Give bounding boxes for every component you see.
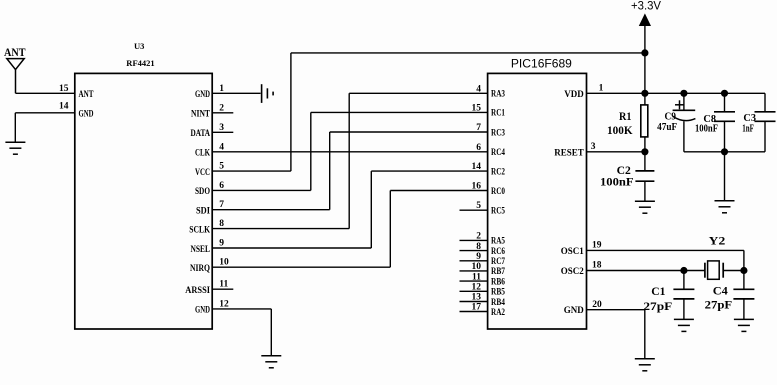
node dot VCC tee <box>642 50 648 56</box>
svg-text:10: 10 <box>219 258 229 268</box>
svg-text:2: 2 <box>219 103 224 113</box>
svg-text:14: 14 <box>472 162 482 172</box>
svg-text:RC6: RC6 <box>491 246 505 256</box>
ground C1 <box>674 318 694 320</box>
svg-text:Y2: Y2 <box>709 234 726 248</box>
svg-text:PIC16F689: PIC16F689 <box>511 57 572 71</box>
ground C2 <box>635 200 655 202</box>
svg-text:3: 3 <box>219 123 224 133</box>
svg-text:VDD: VDD <box>564 89 584 99</box>
svg-text:SDI: SDI <box>196 206 210 216</box>
stub PIC pin 10 <box>460 270 488 272</box>
svg-text:7: 7 <box>219 200 224 210</box>
svg-text:14: 14 <box>59 102 69 112</box>
svg-text:RB4: RB4 <box>491 297 505 307</box>
svg-text:C4: C4 <box>713 283 728 297</box>
stub PIC pin 13 <box>460 301 488 303</box>
ground U3 pin12 <box>261 355 281 357</box>
svg-text:RC3: RC3 <box>491 127 505 137</box>
capacitor C2 <box>644 152 646 171</box>
wire PIC GND pin20 <box>587 309 645 311</box>
capacitor C1 <box>683 271 685 290</box>
wire VDD rail <box>587 92 766 94</box>
node dot cap rail <box>721 149 727 155</box>
wire RESET <box>587 151 645 153</box>
wire VCC up to +3.3V rail <box>212 170 291 172</box>
antenna symbol <box>7 59 24 70</box>
svg-text:RA2: RA2 <box>491 307 505 317</box>
stub PIC pin 9 <box>460 260 488 262</box>
svg-text:7: 7 <box>476 123 481 133</box>
svg-text:RA3: RA3 <box>491 89 505 99</box>
node dot RESET <box>642 149 648 155</box>
wire SCLK to RA3 <box>212 228 349 230</box>
wire antenna to U3 pin15 <box>16 92 75 94</box>
node dot C9 top <box>681 90 687 96</box>
wire SDO to RC1 <box>212 189 311 191</box>
resistor R1 <box>644 93 646 105</box>
svg-text:RC1: RC1 <box>491 108 505 118</box>
ground antenna <box>5 141 25 143</box>
stub PIC pin 11 <box>460 280 488 282</box>
stub U3 pin11 ARSSI <box>212 288 233 290</box>
capacitor C3 <box>764 93 766 112</box>
svg-text:OSC1: OSC1 <box>561 246 585 256</box>
svg-text:GND: GND <box>195 89 210 99</box>
wire NSEL to RC2 <box>212 247 371 249</box>
svg-text:CLK: CLK <box>195 148 210 158</box>
capacitor C4 <box>743 271 745 290</box>
svg-text:GND: GND <box>564 305 585 315</box>
capacitor C8 <box>724 93 726 112</box>
stub U3 pin2 NINT <box>212 112 233 114</box>
svg-text:NSEL: NSEL <box>191 244 211 254</box>
svg-text:12: 12 <box>219 299 229 309</box>
capacitor C9 (electrolytic) <box>683 93 685 110</box>
C9 plus sign <box>675 104 684 106</box>
stub PIC pin 12 <box>460 290 488 292</box>
svg-text:1: 1 <box>219 84 224 94</box>
ground PIC pin20 <box>635 358 655 360</box>
svg-text:VCC: VCC <box>195 167 210 177</box>
node dot OSC2/C1 <box>681 267 687 273</box>
wire U3 pin14 GND <box>15 112 75 114</box>
svg-text:27pF: 27pF <box>705 297 733 311</box>
svg-text:OSC2: OSC2 <box>561 266 585 276</box>
wire SDI to RC3 <box>212 209 330 211</box>
stub PIC pin 17 <box>460 311 488 313</box>
svg-text:+3.3V: +3.3V <box>631 0 661 13</box>
svg-text:100nF: 100nF <box>695 122 718 134</box>
svg-text:SCLK: SCLK <box>189 224 210 234</box>
svg-text:18: 18 <box>592 261 602 271</box>
svg-text:15: 15 <box>59 84 69 94</box>
svg-text:SDO: SDO <box>195 186 210 196</box>
wire U3 pin12 GND <box>212 308 271 310</box>
svg-text:ARSSI: ARSSI <box>185 285 210 295</box>
svg-text:RESET: RESET <box>554 147 584 157</box>
svg-text:GND: GND <box>195 305 210 315</box>
svg-text:RC7: RC7 <box>491 256 505 266</box>
svg-text:RC2: RC2 <box>491 166 505 176</box>
svg-text:RA5: RA5 <box>491 236 505 246</box>
svg-text:4: 4 <box>219 142 224 152</box>
+3.3V arrow <box>640 15 651 26</box>
svg-text:R1: R1 <box>619 109 632 123</box>
svg-text:RF4421: RF4421 <box>126 58 154 68</box>
stub PIC RC5 <box>460 209 488 211</box>
ground C4 <box>734 318 754 320</box>
svg-text:15: 15 <box>472 103 482 113</box>
svg-text:3: 3 <box>591 142 596 152</box>
svg-text:RC5: RC5 <box>491 206 505 216</box>
crystal Y2 <box>704 263 706 278</box>
svg-text:1: 1 <box>599 84 604 94</box>
svg-text:RC4: RC4 <box>491 147 505 157</box>
svg-text:100K: 100K <box>607 123 633 137</box>
svg-text:U3: U3 <box>134 41 144 51</box>
svg-text:RB7: RB7 <box>491 266 505 276</box>
svg-text:6: 6 <box>219 181 224 191</box>
wire OSC2 <box>587 270 705 272</box>
svg-text:RC0: RC0 <box>491 186 505 196</box>
stub PIC pin 2 <box>460 239 488 241</box>
svg-text:GND: GND <box>79 108 94 118</box>
wire U3 pin1 GND <box>212 92 260 94</box>
wire NIRQ to RC0 <box>212 266 390 268</box>
svg-text:NIRQ: NIRQ <box>190 263 210 273</box>
IC U3 RF4421 box <box>75 73 212 329</box>
svg-text:9: 9 <box>219 239 224 249</box>
svg-text:RB5: RB5 <box>491 287 505 297</box>
svg-text:16: 16 <box>472 182 482 192</box>
svg-text:4: 4 <box>476 84 481 94</box>
node dot Y2/C4 <box>741 267 747 273</box>
svg-text:5: 5 <box>219 162 224 172</box>
sideways ground (pin1) <box>261 84 263 103</box>
svg-text:6: 6 <box>476 143 481 153</box>
wire OSC1 <box>587 249 744 251</box>
ground decoupling caps <box>715 200 735 202</box>
stub PIC pin 8 <box>460 250 488 252</box>
svg-text:ANT: ANT <box>4 47 26 59</box>
wire CLK to RC4 <box>212 151 487 153</box>
node dot VDD <box>642 90 648 96</box>
svg-text:100nF: 100nF <box>600 175 634 189</box>
svg-text:47uF: 47uF <box>657 121 677 133</box>
node dot C8 top <box>721 90 727 96</box>
svg-text:C1: C1 <box>651 284 665 298</box>
svg-text:8: 8 <box>219 219 224 229</box>
wire cap rail to ground <box>724 152 726 201</box>
svg-text:19: 19 <box>592 241 602 251</box>
stub U3 pin3 DATA <box>212 131 233 133</box>
svg-text:11: 11 <box>219 280 228 290</box>
svg-text:DATA: DATA <box>191 128 211 138</box>
svg-text:NINT: NINT <box>191 109 210 119</box>
svg-text:20: 20 <box>592 300 602 310</box>
svg-text:ANT: ANT <box>79 89 94 99</box>
svg-text:1nF: 1nF <box>742 122 754 134</box>
wire cap bottom rail <box>684 151 765 153</box>
svg-text:RB6: RB6 <box>491 276 505 286</box>
IC PIC16F689 box <box>488 73 587 329</box>
svg-text:27pF: 27pF <box>643 299 672 313</box>
